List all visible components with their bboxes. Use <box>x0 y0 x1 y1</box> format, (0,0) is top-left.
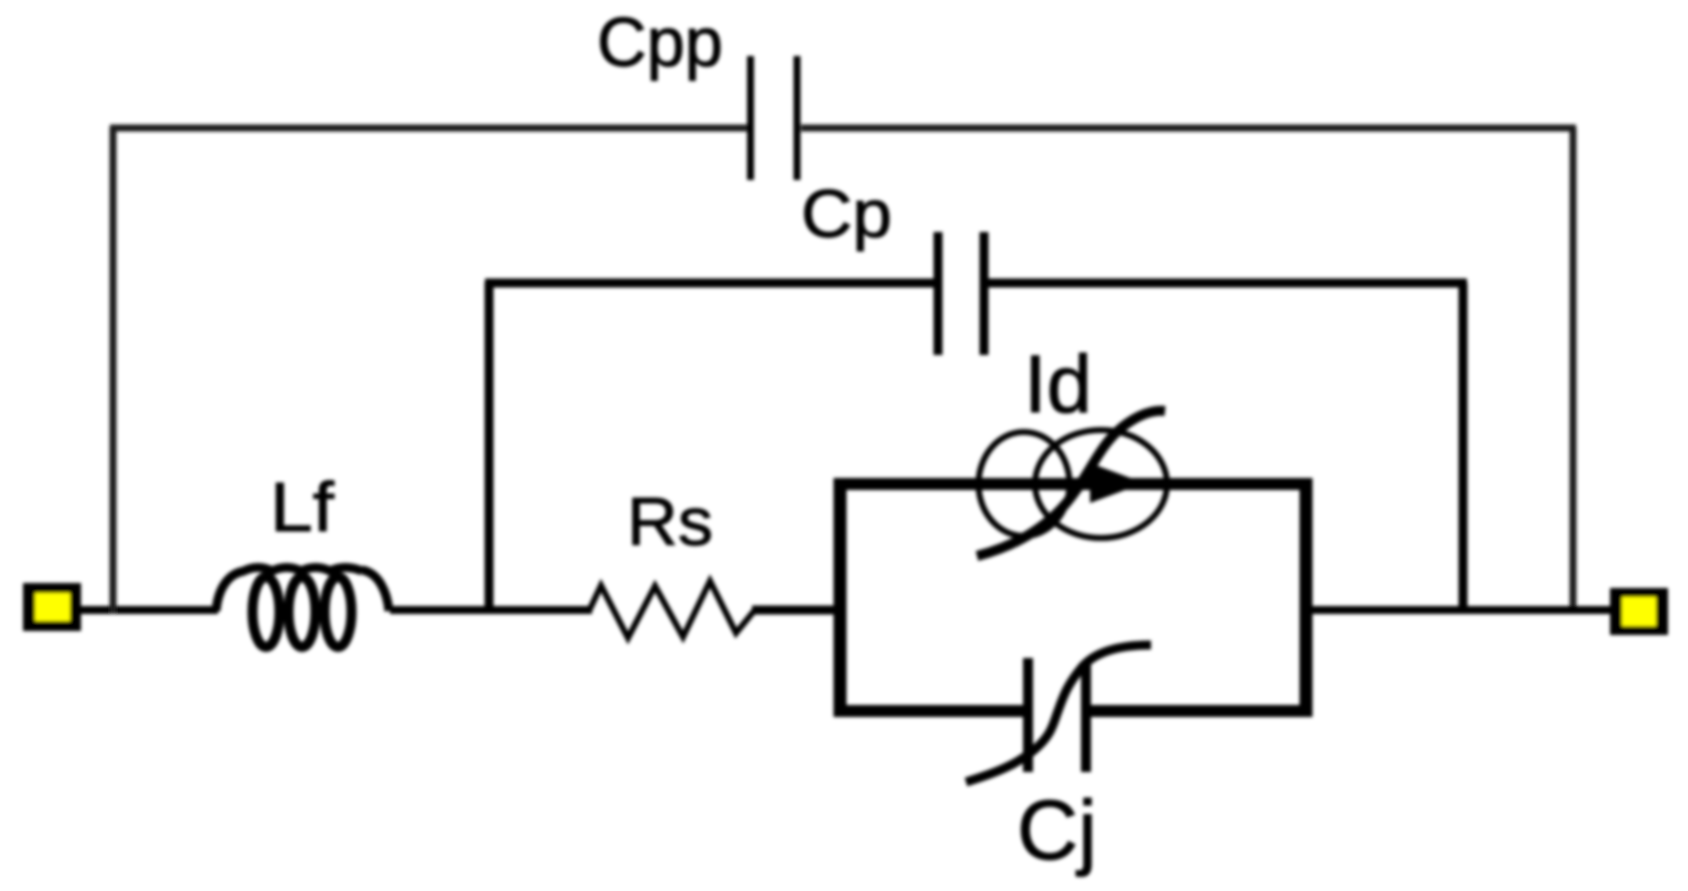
svg-text:Rs: Rs <box>627 484 713 560</box>
wire: resistor to diode box <box>752 606 842 615</box>
wire: Cp branch left vertical riser (node at x=489) <box>485 282 494 612</box>
wire: diode box right edge <box>1300 478 1313 717</box>
port P2 (right terminal) <box>1610 588 1668 635</box>
wire: Cp top horizontal, left of capacitor <box>485 279 934 288</box>
wire: diode box bottom edge, right of Cj <box>1091 705 1312 717</box>
svg-text:Cpp: Cpp <box>597 3 723 81</box>
wire: left terminal to inductor Lf <box>78 606 218 614</box>
wire: Cpp branch right vertical drop <box>1570 128 1577 612</box>
svg-text:Id: Id <box>1024 339 1092 430</box>
capacitor Cpp <box>747 56 754 180</box>
wire: inductor to resistor (junction with Cp riser) <box>390 606 592 614</box>
capacitor Cp <box>934 232 943 355</box>
resistor Rs <box>589 581 754 638</box>
wire: Cpp top horizontal, right of capacitor <box>801 125 1576 132</box>
wire: Cp top horizontal, right of capacitor <box>988 279 1467 288</box>
port P1 (left terminal) <box>23 583 81 631</box>
wire: diode box top edge <box>834 478 1312 490</box>
current source Id <box>977 411 1167 556</box>
wire: Cp branch right vertical drop <box>1459 283 1468 612</box>
wire: diode box bottom edge, left of Cj <box>834 705 1024 717</box>
svg-text:Cp: Cp <box>801 176 892 252</box>
wire: diode box left edge <box>834 478 847 717</box>
wire: Cpp branch left vertical riser (node at x=113) <box>110 127 117 614</box>
svg-text:Lf: Lf <box>270 468 335 546</box>
inductor Lf <box>216 568 389 648</box>
capacitor Cj (nonlinear junction capacitance) <box>966 645 1151 782</box>
svg-text:Cj: Cj <box>1017 783 1097 877</box>
wire: diode box to right terminal <box>1306 606 1615 614</box>
wire: Cpp top horizontal, left of capacitor <box>110 125 747 132</box>
